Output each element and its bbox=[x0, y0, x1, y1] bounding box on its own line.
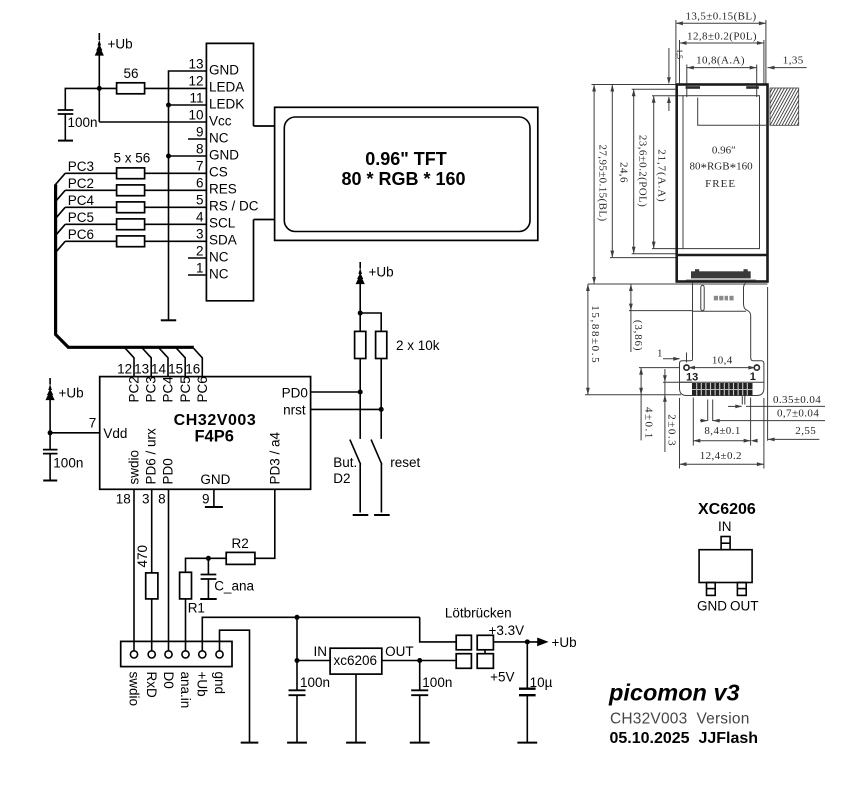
dimension 0,7±0.04 bbox=[700, 400, 825, 423]
wire PD6 pin 3 to 470 bbox=[151, 489, 153, 573]
svg-text:gnd: gnd bbox=[212, 672, 227, 695]
svg-text:PD6 / urx: PD6 / urx bbox=[144, 428, 159, 485]
resistor 10k (PD0) bbox=[355, 331, 366, 358]
ground bar (header gnd) bbox=[241, 742, 259, 744]
dimension 12,4±0.2 bbox=[680, 398, 764, 469]
svg-text:RES: RES bbox=[209, 182, 237, 197]
driver region lines bbox=[698, 98, 768, 126]
mounting hole right bbox=[754, 365, 759, 370]
wire header +Ub riser bbox=[202, 617, 419, 651]
svg-text:13,5±0.15(BL): 13,5±0.15(BL) bbox=[685, 11, 756, 23]
wire PC2 row bbox=[55, 190, 207, 202]
svg-text:PD3 / a4: PD3 / a4 bbox=[267, 431, 282, 484]
svg-text:PC4: PC4 bbox=[68, 193, 95, 208]
dimension 2±0.3 (left) bbox=[663, 369, 692, 452]
dimension 15,88±0.5 (left) bbox=[585, 284, 681, 395]
resistor R2 bbox=[226, 536, 255, 564]
resistor 56 bbox=[99, 66, 206, 94]
svg-text:LEDA: LEDA bbox=[209, 80, 244, 95]
wire junction to 100n bbox=[65, 88, 99, 110]
display active area rect bbox=[683, 96, 760, 249]
svg-text:NC: NC bbox=[209, 250, 229, 265]
pin stub below block bbox=[742, 396, 745, 405]
svg-text:PD0: PD0 bbox=[161, 458, 176, 484]
wire thick bus PC lines to MCU bbox=[56, 185, 194, 348]
svg-text:9: 9 bbox=[196, 125, 204, 140]
svg-text:7: 7 bbox=[89, 416, 97, 431]
MCU U1 CH32V003 box bbox=[100, 377, 311, 490]
svg-text:0.35±0.04: 0.35±0.04 bbox=[773, 394, 821, 406]
svg-text:3: 3 bbox=[196, 227, 204, 242]
node junction LEDK pin 11 bbox=[166, 103, 206, 108]
wire bus branch to pin 16 bbox=[193, 348, 202, 377]
svg-text:+3.3V: +3.3V bbox=[489, 623, 525, 638]
flex middle top edge bbox=[693, 310, 747, 312]
dimension 1 (hole offset) bbox=[657, 348, 687, 363]
svg-text:D0: D0 bbox=[161, 672, 176, 689]
svg-text:R1: R1 bbox=[188, 601, 205, 616]
svg-text:12: 12 bbox=[188, 74, 203, 89]
connector pin labels bbox=[209, 63, 259, 282]
wire PC5 row bbox=[55, 224, 207, 236]
wire IN to regulator bbox=[297, 660, 330, 662]
svg-text:1,35: 1,35 bbox=[783, 55, 804, 67]
wire swdio pin 18 to header bbox=[133, 489, 135, 651]
svg-text:PC5: PC5 bbox=[68, 210, 94, 225]
wire bus branch to pin 14 bbox=[159, 348, 168, 377]
node junction GND pin 8 bbox=[166, 154, 206, 159]
svg-text:LEDK: LEDK bbox=[209, 97, 244, 112]
resistor 56 (PC5) bbox=[117, 219, 145, 230]
svg-text:1,5: 1,5 bbox=[675, 49, 684, 59]
package pin OUT bbox=[737, 583, 746, 596]
FPC hatched block bbox=[770, 88, 799, 125]
node junction IN bbox=[295, 658, 300, 663]
wire R1 to header ana.in bbox=[185, 599, 187, 651]
svg-text:+Ub: +Ub bbox=[195, 672, 210, 697]
resistor 56 (PC4) bbox=[117, 202, 145, 213]
resistor 56 (PC2) bbox=[117, 185, 145, 196]
wire +Ub to Vdd pin 7 bbox=[50, 400, 100, 433]
wire PC6 row bbox=[55, 241, 207, 253]
svg-text:7: 7 bbox=[196, 159, 204, 174]
svg-text:1: 1 bbox=[196, 261, 204, 276]
svg-text:8: 8 bbox=[158, 492, 166, 507]
svg-text:NC: NC bbox=[209, 131, 229, 146]
solder bridge pad (bottom left) bbox=[456, 654, 471, 669]
node junction OUT bbox=[417, 658, 422, 663]
svg-text:10,4: 10,4 bbox=[712, 354, 733, 366]
MCU pin numbers 12..16 bbox=[117, 362, 200, 377]
wire bus branch to pin 15 bbox=[176, 348, 185, 377]
node junction output bbox=[525, 639, 530, 644]
svg-text:5: 5 bbox=[196, 193, 204, 208]
svg-text:PC5: PC5 bbox=[178, 376, 193, 402]
display body outline (thick) bbox=[677, 85, 768, 282]
wire PC3 row bbox=[55, 173, 207, 185]
node junction +Ub/56/100n bbox=[97, 86, 102, 91]
wire Vcc to connector pin 10 bbox=[99, 121, 206, 123]
svg-text:PC6: PC6 bbox=[68, 227, 94, 242]
svg-text:2: 2 bbox=[196, 244, 204, 259]
svg-text:Lötbrücken: Lötbrücken bbox=[445, 606, 512, 621]
wire IN drop bbox=[296, 617, 298, 660]
ground bar (regulator) bbox=[346, 742, 366, 744]
svg-text:+Ub: +Ub bbox=[552, 635, 577, 650]
svg-text:OUT: OUT bbox=[730, 599, 759, 614]
svg-text:CS: CS bbox=[209, 165, 228, 180]
svg-text:reset: reset bbox=[390, 455, 420, 470]
wire left pullup bottom to switch bbox=[359, 359, 361, 439]
svg-text:12,8±0.2(P0L): 12,8±0.2(P0L) bbox=[687, 31, 757, 43]
wire OUT to pads bbox=[382, 660, 456, 662]
dimension 23,6±0.2(POL) (left) bbox=[632, 89, 677, 254]
dimension 12,8±0.2(P0L) bbox=[680, 31, 764, 84]
capacitor 100n (regulator output) bbox=[411, 661, 452, 743]
svg-text:PC4: PC4 bbox=[161, 376, 176, 403]
svg-text:100n: 100n bbox=[68, 115, 98, 130]
svg-text:R2: R2 bbox=[232, 536, 249, 551]
svg-text:2 x 10k: 2 x 10k bbox=[396, 338, 440, 353]
svg-text:15,88±0.5: 15,88±0.5 bbox=[589, 305, 601, 364]
wire connector to TFT bottom bbox=[254, 219, 275, 221]
node junction nrst/pullup bbox=[379, 407, 384, 412]
wire bridge to output node bbox=[493, 641, 537, 643]
svg-text:Vdd: Vdd bbox=[103, 426, 127, 441]
svg-text:0.96" TFT: 0.96" TFT bbox=[365, 149, 447, 169]
dimension 0.35±0.04 bbox=[728, 394, 825, 409]
display module TFT inner rounded rect bbox=[284, 117, 530, 232]
svg-text:56: 56 bbox=[124, 66, 139, 81]
svg-text:3: 3 bbox=[142, 492, 150, 507]
node junction +Ub line / IN drop bbox=[295, 615, 300, 620]
svg-text:SDA: SDA bbox=[209, 233, 237, 248]
svg-text:100n: 100n bbox=[422, 675, 452, 690]
svg-text:XC6206: XC6206 bbox=[698, 501, 756, 518]
ground bar (reset switch) bbox=[374, 514, 390, 516]
dimension 27,95±0.15(BL) (left) bbox=[588, 85, 768, 285]
connector J1 display connector outline bbox=[206, 43, 253, 300]
wire NC stub pin 1 bbox=[188, 274, 206, 276]
wire right pullup bottom to switch bbox=[380, 359, 382, 439]
dimension 1,35 bbox=[768, 55, 807, 70]
svg-text:4±0.1: 4±0.1 bbox=[643, 407, 655, 440]
capacitor C_ana bbox=[201, 558, 255, 599]
wire NC stub pin 2 bbox=[188, 257, 206, 259]
package U2 SOT-23 body bbox=[699, 550, 752, 583]
resistor 10k (nrst) bbox=[376, 331, 387, 358]
regulator U2 xc6206 bbox=[330, 648, 382, 674]
svg-text:23,6±0.2(POL): 23,6±0.2(POL) bbox=[637, 135, 649, 207]
svg-text:14: 14 bbox=[151, 362, 167, 377]
wire PD0 pin 8 to header D0 bbox=[168, 489, 170, 651]
ground bar (10u) bbox=[517, 742, 537, 744]
svg-text:2,55: 2,55 bbox=[795, 425, 816, 437]
wire +Ub down to pullup junction bbox=[359, 284, 361, 314]
svg-text:PC2: PC2 bbox=[127, 376, 142, 402]
bezel notch right bbox=[746, 86, 759, 89]
svg-text:4: 4 bbox=[196, 210, 204, 225]
solder bridge pad (top left) bbox=[456, 635, 471, 650]
svg-text:SCL: SCL bbox=[209, 216, 236, 231]
dimension 8,4±0.1 bbox=[693, 398, 750, 446]
svg-text:13: 13 bbox=[134, 362, 149, 377]
svg-text:PD0: PD0 bbox=[282, 385, 308, 400]
svg-text:10,8(A.A): 10,8(A.A) bbox=[696, 55, 745, 67]
svg-text:PC3: PC3 bbox=[144, 376, 159, 402]
svg-text:9: 9 bbox=[202, 492, 210, 507]
ground bar (output 100n) bbox=[410, 742, 430, 744]
svg-text:xc6206: xc6206 bbox=[334, 653, 378, 668]
svg-text:10: 10 bbox=[188, 108, 203, 123]
display module TFT outline bbox=[275, 107, 538, 240]
dimension 13,5±0.15(BL) bbox=[676, 11, 766, 85]
wire junction to R1 bbox=[186, 558, 209, 572]
power symbol +Ub (top left) bbox=[95, 33, 133, 56]
wire regulator GND bbox=[355, 674, 357, 743]
svg-text:12,4±0.2: 12,4±0.2 bbox=[700, 450, 742, 462]
wire bus branch to pin 13 bbox=[142, 348, 151, 377]
solder bridge pad (bottom right) bbox=[477, 654, 493, 669]
svg-text:+Ub: +Ub bbox=[108, 37, 133, 52]
wire left pullup top lead bbox=[359, 313, 361, 331]
svg-text:GND: GND bbox=[209, 148, 239, 163]
resistor 470 bbox=[135, 545, 158, 599]
wire branch to second pullup bbox=[360, 313, 381, 331]
svg-text:100n: 100n bbox=[53, 456, 83, 471]
svg-text:15: 15 bbox=[168, 362, 183, 377]
wire connector to TFT top bbox=[254, 125, 275, 127]
pin block 13 fingers bbox=[692, 383, 753, 395]
svg-text:IN: IN bbox=[718, 519, 732, 534]
dimension (3,86) (left) bbox=[629, 284, 693, 352]
svg-text:PC6: PC6 bbox=[195, 376, 210, 402]
svg-text:8: 8 bbox=[196, 142, 204, 157]
node junction R1/R2/C_ana bbox=[206, 556, 211, 561]
display body internal line bbox=[677, 254, 768, 257]
svg-text:2±0.3: 2±0.3 bbox=[666, 414, 678, 447]
svg-text:D2: D2 bbox=[333, 471, 350, 486]
capacitor 100n (at Vdd) bbox=[43, 433, 83, 481]
node junction pullup top bbox=[358, 311, 363, 316]
header pad RxD bbox=[148, 651, 155, 658]
svg-text:nrst: nrst bbox=[283, 403, 306, 418]
dimension 2,55 bbox=[751, 287, 820, 443]
connector top edge line bbox=[680, 381, 764, 383]
svg-text:11: 11 bbox=[189, 91, 203, 106]
package pin GND bbox=[707, 583, 716, 596]
svg-text:05.10.2025 JJFlash: 05.10.2025 JJFlash bbox=[610, 730, 759, 747]
svg-text:ana.in: ana.in bbox=[178, 672, 193, 709]
ground bar (C_ana) bbox=[200, 598, 217, 600]
capacitor 10u bbox=[519, 642, 553, 743]
wire R2 to junction bbox=[208, 557, 226, 559]
solder bridge pad (top right) bbox=[477, 635, 493, 650]
svg-text:1: 1 bbox=[657, 348, 663, 360]
header pad swdio bbox=[130, 651, 137, 658]
power symbol +Ub (reset pullups) bbox=[356, 262, 394, 284]
ground bar (100n at Vdd) bbox=[43, 480, 57, 482]
svg-text:swdio: swdio bbox=[127, 450, 142, 485]
svg-text:NC: NC bbox=[209, 267, 229, 282]
resistor 56 (PC6) bbox=[117, 236, 145, 247]
flex bottom connector part outline bbox=[680, 358, 764, 396]
svg-text:21,7(A.A): 21,7(A.A) bbox=[656, 149, 668, 202]
wire PD3/a4 to R2 bbox=[255, 489, 275, 558]
wire link between right pads bbox=[484, 650, 486, 654]
svg-text:470: 470 bbox=[135, 545, 150, 568]
wire header gnd riser bbox=[220, 630, 250, 742]
svg-text:GND: GND bbox=[200, 472, 230, 487]
svg-text:GND: GND bbox=[697, 599, 727, 614]
svg-text:CH32V003 Version: CH32V003 Version bbox=[610, 710, 750, 727]
svg-text:0,7±0.04: 0,7±0.04 bbox=[777, 408, 819, 420]
svg-text:Vcc: Vcc bbox=[209, 114, 232, 129]
svg-text:picomon v3: picomon v3 bbox=[608, 679, 740, 705]
svg-text:(3,86): (3,86) bbox=[632, 320, 644, 351]
wire bus branch to pin 12 bbox=[125, 348, 134, 377]
package pin IN bbox=[721, 537, 730, 550]
svg-text:RxD: RxD bbox=[144, 672, 159, 698]
svg-text:swdio: swdio bbox=[126, 672, 141, 707]
dimension 10,8(A.A) bbox=[687, 55, 757, 97]
svg-text:10µ: 10µ bbox=[530, 675, 553, 690]
dimension 21,7(A.A) (left) bbox=[652, 96, 683, 249]
ground bar (button D2) bbox=[353, 514, 369, 516]
svg-text:1: 1 bbox=[750, 371, 756, 383]
svg-text:FREE: FREE bbox=[705, 178, 736, 190]
svg-text:C_ana: C_ana bbox=[214, 578, 254, 593]
header pad ana.in bbox=[182, 651, 189, 658]
dimension 10,4 bbox=[688, 354, 755, 369]
flex cable neck bbox=[693, 283, 751, 360]
dimension 4±0.1 (left) bbox=[639, 368, 680, 441]
header pad gnd bbox=[216, 651, 223, 658]
svg-text:0.96″: 0.96″ bbox=[712, 145, 736, 157]
svg-text:+Ub: +Ub bbox=[59, 386, 84, 401]
node junction Vdd/100n bbox=[48, 430, 53, 435]
dimension 24,6 (left) bbox=[610, 85, 677, 258]
header pad D0 bbox=[165, 651, 172, 658]
svg-text:6: 6 bbox=[196, 176, 204, 191]
svg-text:16: 16 bbox=[185, 362, 200, 377]
connector pin numbers 13..1 bbox=[188, 57, 204, 276]
wire PD0 from MCU bbox=[311, 391, 361, 393]
ground bar (MCU GND) bbox=[205, 506, 223, 508]
power symbol +Ub (output arrow) bbox=[537, 635, 576, 650]
ground bar (display GND net) bbox=[161, 319, 176, 321]
ground bar (input 100n) bbox=[287, 742, 307, 744]
wire nrst from MCU bbox=[311, 408, 382, 410]
connector bar in bottom strip bbox=[686, 269, 756, 280]
wire connector pin 13 GND to ground bbox=[169, 71, 207, 320]
svg-text:OUT: OUT bbox=[385, 644, 414, 659]
svg-text:5 x 56: 5 x 56 bbox=[114, 151, 151, 166]
wire NC stub pin 9 bbox=[188, 138, 206, 140]
svg-text:RS / DC: RS / DC bbox=[209, 199, 259, 214]
wire PC4 row bbox=[55, 207, 207, 219]
dimension 1,5 (small, top left of body) bbox=[667, 48, 684, 111]
wire +Ub rail down to Vcc bbox=[98, 55, 100, 122]
svg-text:CH32V003: CH32V003 bbox=[174, 412, 257, 429]
header pad +Ub bbox=[199, 651, 206, 658]
flex fold slot bbox=[701, 285, 704, 311]
svg-text:27,95±0.15(BL): 27,95±0.15(BL) bbox=[597, 145, 609, 222]
svg-text:80 * RGB * 160: 80 * RGB * 160 bbox=[341, 169, 465, 189]
switch button D2 bbox=[350, 440, 361, 513]
wire 470 to header RxD bbox=[151, 599, 153, 651]
wire +Ub direct to bridge bbox=[420, 617, 457, 642]
ground bar (100n top left) bbox=[58, 140, 73, 142]
svg-text:100n: 100n bbox=[300, 675, 330, 690]
svg-text:24,6: 24,6 bbox=[618, 162, 630, 183]
svg-text:+Ub: +Ub bbox=[369, 265, 394, 280]
bezel notch left bbox=[686, 86, 700, 89]
svg-text:+5V: +5V bbox=[490, 670, 514, 685]
power symbol +Ub (at Vdd) bbox=[46, 378, 84, 401]
svg-text:12: 12 bbox=[117, 362, 132, 377]
svg-text:F4P6: F4P6 bbox=[194, 428, 233, 446]
svg-text:GND: GND bbox=[209, 63, 239, 78]
node junction PD0/pullup bbox=[358, 390, 363, 395]
svg-text:PC2: PC2 bbox=[68, 176, 94, 191]
switch reset bbox=[371, 440, 382, 513]
capacitor 100n (regulator input) bbox=[289, 661, 331, 743]
svg-text:But.: But. bbox=[333, 455, 357, 470]
wire MCU GND pin 9 bbox=[213, 489, 215, 507]
svg-text:13: 13 bbox=[188, 57, 203, 72]
svg-text:IN: IN bbox=[314, 644, 328, 659]
svg-text:PC3: PC3 bbox=[68, 159, 94, 174]
flex label marks bbox=[714, 296, 734, 301]
mounting hole left bbox=[684, 365, 689, 370]
resistor 56 (PC3) bbox=[117, 168, 145, 179]
svg-text:18: 18 bbox=[116, 492, 131, 507]
capacitor 100n (top left) bbox=[58, 110, 98, 141]
resistor R1 bbox=[180, 572, 205, 615]
svg-text:8,4±0.1: 8,4±0.1 bbox=[704, 425, 740, 437]
connector header X1 bbox=[121, 641, 232, 666]
